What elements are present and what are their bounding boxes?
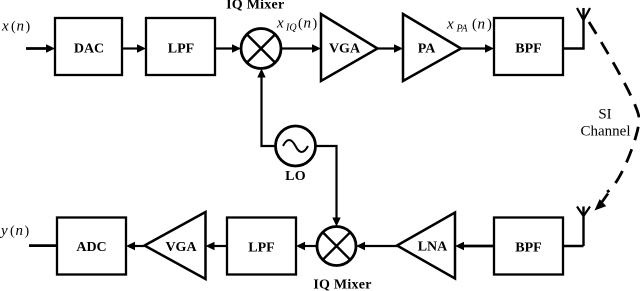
svg-text:x: x bbox=[1, 19, 9, 35]
IQ mixer (bottom) bbox=[317, 227, 356, 266]
wire LPF to VGA (bottom) bbox=[214, 245, 228, 247]
SI channel dashed path bbox=[589, 22, 639, 192]
svg-text:): ) bbox=[26, 20, 31, 35]
amplifier LNA bbox=[397, 213, 455, 279]
svg-text:IQ Mixer: IQ Mixer bbox=[226, 0, 284, 13]
block LPF (bottom) bbox=[227, 218, 296, 275]
svg-text:n: n bbox=[478, 17, 486, 33]
svg-text:(: ( bbox=[11, 20, 16, 35]
svg-text:BPF: BPF bbox=[515, 42, 541, 57]
RX antenna bbox=[577, 207, 590, 217]
svg-text:SI: SI bbox=[598, 107, 611, 123]
wire LNA to IQ mixer (bottom) bbox=[364, 245, 397, 247]
svg-text:x: x bbox=[446, 17, 454, 33]
svg-text:(: ( bbox=[10, 224, 15, 239]
block LPF (top) bbox=[146, 18, 215, 75]
svg-text:DAC: DAC bbox=[74, 42, 104, 57]
svg-text:BPF: BPF bbox=[515, 241, 541, 256]
svg-text:ADC: ADC bbox=[76, 240, 106, 255]
wire ADC output to y(n) bbox=[29, 244, 57, 247]
IQ mixer (top) bbox=[241, 29, 281, 69]
svg-text:): ) bbox=[25, 224, 30, 239]
wire DAC to LPF bbox=[122, 47, 138, 49]
wire VGA to PA bbox=[378, 47, 396, 49]
block BPF (bottom) bbox=[494, 218, 563, 275]
svg-text:IQ Mixer: IQ Mixer bbox=[313, 278, 371, 291]
svg-text:VGA: VGA bbox=[329, 42, 361, 57]
svg-text:LPF: LPF bbox=[168, 42, 194, 57]
wire PA to BPF bbox=[461, 47, 486, 49]
wire mixer to VGA bbox=[281, 47, 313, 49]
svg-text:n: n bbox=[304, 16, 312, 32]
svg-text:(: ( bbox=[472, 17, 477, 33]
svg-text:PA: PA bbox=[456, 23, 469, 34]
svg-text:IQ: IQ bbox=[285, 23, 297, 34]
wire LO to top mixer bbox=[262, 76, 276, 146]
svg-text:): ) bbox=[313, 17, 318, 32]
svg-text:n: n bbox=[17, 19, 25, 35]
block DAC bbox=[55, 18, 122, 75]
svg-text:Channel: Channel bbox=[581, 124, 631, 140]
svg-text:LNA: LNA bbox=[418, 240, 448, 255]
oscillator LO bbox=[276, 126, 316, 166]
wire input arrow into DAC bbox=[26, 47, 47, 50]
svg-text:(: ( bbox=[298, 17, 303, 32]
wire VGA to ADC bbox=[134, 245, 145, 247]
svg-text:): ) bbox=[487, 17, 492, 33]
svg-text:n: n bbox=[16, 223, 24, 239]
wire mixer to LPF (bottom) bbox=[304, 245, 317, 247]
amplifier VGA (bottom) bbox=[145, 212, 206, 279]
svg-text:PA: PA bbox=[418, 42, 437, 57]
svg-text:VGA: VGA bbox=[165, 240, 197, 255]
wire BPF to LNA bbox=[463, 245, 494, 248]
wire BPF to TX antenna bbox=[563, 20, 584, 49]
svg-text:x: x bbox=[276, 16, 284, 32]
wire RX antenna to BPF bbox=[563, 245, 584, 247]
block BPF (top) bbox=[494, 18, 563, 75]
svg-text:LO: LO bbox=[285, 169, 306, 184]
wire LPF to IQ mixer bbox=[215, 47, 233, 49]
amplifier VGA (top) bbox=[321, 14, 378, 81]
TX antenna bbox=[577, 8, 590, 20]
svg-text:y: y bbox=[0, 223, 8, 239]
wire LO to bottom mixer bbox=[316, 146, 337, 219]
amplifier PA bbox=[403, 14, 461, 81]
block ADC bbox=[57, 218, 126, 275]
svg-text:LPF: LPF bbox=[248, 241, 274, 256]
